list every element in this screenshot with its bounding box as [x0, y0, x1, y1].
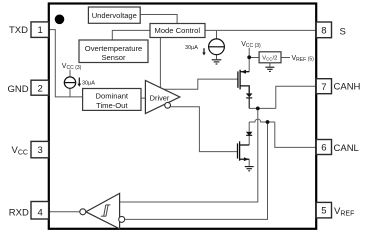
svg-text:1: 1	[38, 25, 43, 36]
svg-text:Sensor: Sensor	[101, 53, 126, 62]
svg-text:VREF: VREF	[334, 206, 354, 218]
svg-text:GND: GND	[8, 84, 29, 95]
svg-text:RXD: RXD	[9, 208, 29, 219]
svg-text:5: 5	[321, 206, 326, 217]
svg-text:6: 6	[321, 143, 326, 154]
svg-text:VCC/2: VCC/2	[262, 56, 277, 62]
svg-text:30µA: 30µA	[82, 80, 95, 86]
svg-text:VCC: VCC	[12, 145, 28, 157]
svg-text:Dominant: Dominant	[96, 92, 129, 101]
svg-text:TXD: TXD	[9, 25, 28, 36]
svg-text:Undervoltage: Undervoltage	[92, 11, 137, 20]
svg-text:Time-Out: Time-Out	[96, 101, 128, 110]
svg-text:7: 7	[321, 82, 326, 93]
svg-text:Overtemperature: Overtemperature	[85, 44, 142, 53]
svg-text:CANL: CANL	[334, 143, 359, 154]
svg-text:2: 2	[38, 83, 43, 94]
svg-text:8: 8	[321, 25, 326, 36]
svg-text:Mode Control: Mode Control	[155, 26, 201, 35]
svg-text:Driver: Driver	[150, 94, 170, 103]
svg-text:4: 4	[38, 207, 43, 218]
svg-text:VREF(5): VREF(5)	[292, 55, 315, 63]
svg-text:VCC(3): VCC(3)	[241, 41, 261, 49]
svg-text:3: 3	[38, 145, 43, 156]
svg-text:S: S	[340, 26, 346, 37]
svg-text:30µA: 30µA	[185, 45, 198, 51]
svg-text:CANH: CANH	[334, 82, 361, 93]
svg-text:VCC(3): VCC(3)	[62, 63, 82, 71]
